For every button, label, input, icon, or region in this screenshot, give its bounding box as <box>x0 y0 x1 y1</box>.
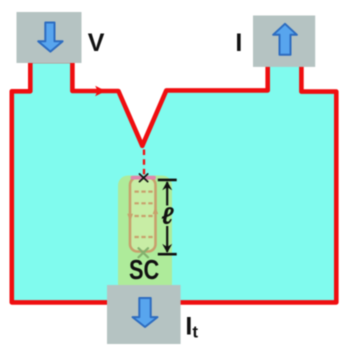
flux dashes row 3 <box>135 215 153 217</box>
flux dashes row 1 <box>135 191 153 193</box>
tunnel contact pad (gray, bottom) <box>107 285 181 344</box>
It pad arrow (blue, down) <box>133 298 158 327</box>
length measure: top bar <box>158 179 177 182</box>
svg-text:SC: SC <box>129 254 159 285</box>
vortex loop (tan rounded rectangle) <box>130 178 156 252</box>
tan X (vortex exit point) <box>139 248 149 257</box>
svg-text:I: I <box>235 29 242 57</box>
flux dashes row 2 <box>135 202 153 204</box>
flux dashes row 4 <box>135 236 153 238</box>
length measure: vertical line upper <box>166 182 168 206</box>
length measure: down arrowhead <box>162 244 172 253</box>
loop arrow left (down) <box>127 214 133 222</box>
current contact pad (gray, top-right) <box>253 16 315 67</box>
length measure: vertical line lower <box>166 226 168 252</box>
current direction arrowhead on top border <box>95 86 106 96</box>
loop arrow right (up) <box>153 207 159 215</box>
length measure: bottom bar <box>158 253 177 256</box>
dashed red line from notch tip <box>143 150 145 175</box>
svg-text:ℓ: ℓ <box>161 203 174 230</box>
sample film (cyan region) with V notch, red boundary <box>12 61 337 302</box>
voltage contact pad (gray, top-left) <box>17 12 82 63</box>
svg-text:V: V <box>88 29 105 57</box>
I pad arrow (blue, up) <box>273 24 297 55</box>
V pad arrow (blue, down) <box>38 23 62 52</box>
SC bar (green superconductor) <box>118 176 172 294</box>
black X (vortex entry point) <box>140 174 148 182</box>
pinned segment (pink) on loop top <box>133 176 155 180</box>
length measure: up arrowhead <box>162 181 172 190</box>
svg-text:It: It <box>185 313 198 342</box>
